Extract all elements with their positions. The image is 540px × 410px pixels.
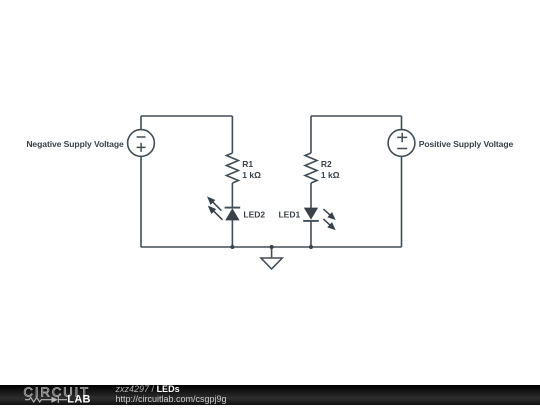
svg-text:Negative Supply Voltage: Negative Supply Voltage xyxy=(26,139,124,149)
svg-text:LED2: LED2 xyxy=(243,210,265,220)
svg-text:1 kΩ: 1 kΩ xyxy=(321,170,340,180)
svg-text:R2: R2 xyxy=(321,159,332,169)
svg-text:LED1: LED1 xyxy=(278,210,300,220)
svg-text:LAB: LAB xyxy=(67,394,91,405)
svg-text:1 kΩ: 1 kΩ xyxy=(242,170,261,180)
svg-text:R1: R1 xyxy=(242,159,253,169)
svg-text:Positive Supply Voltage: Positive Supply Voltage xyxy=(419,139,514,149)
